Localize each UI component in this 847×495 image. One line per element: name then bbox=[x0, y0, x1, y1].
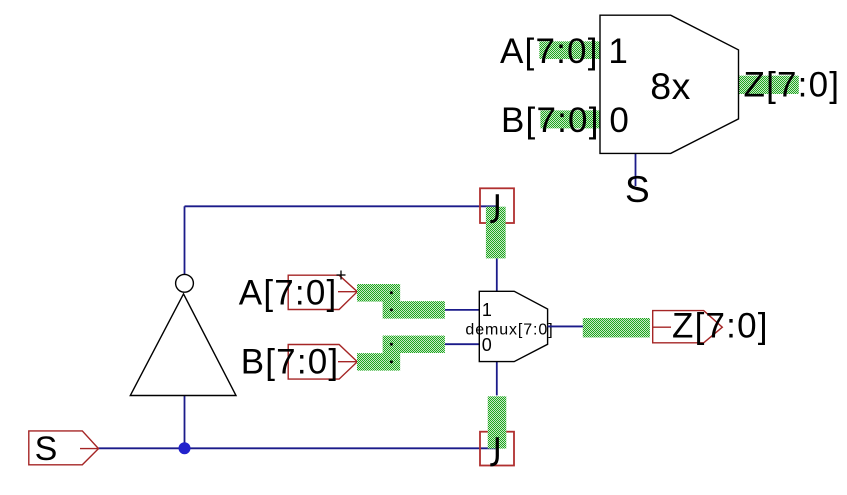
highlighted bus A row (mux) bbox=[539, 41, 600, 59]
highlighted bus B row (mux) bbox=[540, 110, 600, 128]
svg-text:8x: 8x bbox=[650, 65, 691, 107]
wire W4 S net horizontal to bottom J bbox=[99, 447, 497, 449]
vertex dot B bend bottom bbox=[390, 360, 393, 363]
port flag A[7:0] (input) bbox=[288, 275, 357, 309]
wire W5 mux select stub bbox=[635, 153, 637, 186]
highlighted bus wire A to demux bbox=[357, 293, 445, 310]
wire W3 inverter input down to S net bbox=[184, 396, 186, 449]
junction dot on S net bbox=[179, 442, 191, 454]
svg-text:S: S bbox=[35, 430, 58, 468]
svg-text:1: 1 bbox=[482, 300, 492, 320]
svg-text:1: 1 bbox=[608, 32, 627, 71]
vertex dot B bend top bbox=[390, 343, 393, 346]
pin marker + on A flag bbox=[337, 271, 346, 280]
svg-text:A[7:0]: A[7:0] bbox=[500, 32, 599, 71]
wire W1 inverter output to top J bbox=[185, 205, 497, 207]
inverter triangle bbox=[130, 294, 236, 396]
svg-text:B[7:0]: B[7:0] bbox=[501, 101, 600, 140]
label J bottom bbox=[490, 437, 497, 465]
highlighted bus bottom select bbox=[488, 396, 507, 448]
svg-text:B[7:0]: B[7:0] bbox=[241, 342, 340, 381]
highlighted bus Z row (mux) bbox=[739, 76, 799, 94]
wire W8 demux output stub bbox=[548, 325, 583, 327]
label J top bbox=[490, 194, 497, 221]
inverter bubble bbox=[176, 274, 194, 292]
port flag S (input) bbox=[29, 431, 99, 465]
wire W8 demux output stub (over label) bbox=[548, 325, 583, 327]
junction box J top bbox=[480, 188, 514, 223]
wire W10 demux bottom select bbox=[496, 362, 498, 396]
svg-text:0: 0 bbox=[482, 335, 492, 355]
highlighted bus wire B to demux bbox=[357, 344, 445, 362]
demux body bbox=[479, 291, 547, 361]
svg-text:Z[7:0]: Z[7:0] bbox=[672, 307, 769, 346]
svg-text:0: 0 bbox=[609, 101, 628, 140]
wire W7 demux input 0 stub bbox=[445, 343, 479, 345]
vertex dot A bend top bbox=[390, 291, 393, 294]
highlighted bus demux output bbox=[583, 318, 650, 337]
wire W2 vertical from bubble up bbox=[184, 206, 186, 274]
mux 8x body bbox=[600, 15, 739, 153]
vertex dot A bend bottom bbox=[390, 308, 393, 311]
svg-text:Z[7:0]: Z[7:0] bbox=[744, 66, 841, 105]
junction box J bottom bbox=[480, 432, 514, 466]
svg-text:S: S bbox=[625, 169, 650, 210]
wire W9 demux top select bbox=[496, 258, 498, 291]
highlighted bus top select bbox=[486, 207, 506, 259]
svg-text:A[7:0]: A[7:0] bbox=[239, 274, 338, 313]
port flag Z[7:0] (output) bbox=[653, 311, 723, 343]
wire W6 demux input 1 stub bbox=[445, 309, 479, 311]
port flag B[7:0] (input) bbox=[288, 345, 357, 380]
